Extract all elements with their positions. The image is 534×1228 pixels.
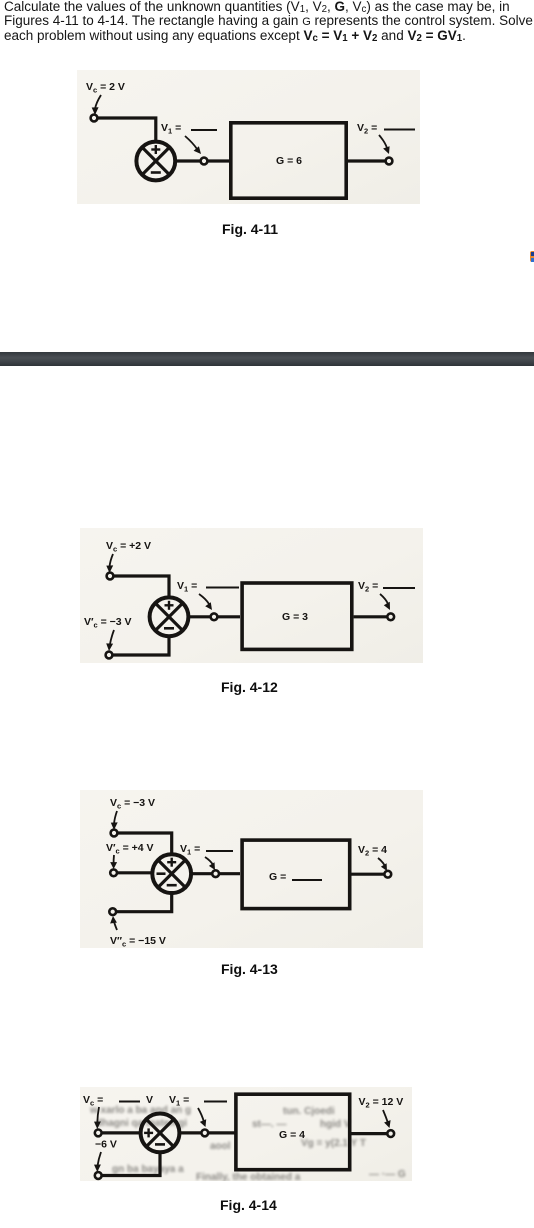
node V2 label [358,580,378,594]
value label G = 4 [279,1129,305,1141]
arrow to V2 terminal [383,1110,388,1123]
svg-text:V′c = −3 V: V′c = −3 V [84,616,132,630]
svg-text:V1 =: V1 = [177,580,197,594]
wire -6V to summer [102,1154,160,1176]
node V1 label [177,580,197,594]
blank for V1 value [204,1101,227,1103]
terminal V2 [387,613,394,620]
page edge icon artifact [530,251,534,262]
wire Vc to summer [114,576,170,598]
arrow to V'c terminal [110,630,114,645]
summing junction S3 [152,854,191,893]
value label G = blank [269,871,286,883]
wire V''c to summer [116,891,172,912]
blank for V1 value [206,850,233,852]
svg-text:V1 =: V1 = [180,843,200,857]
terminal Vc [107,573,114,580]
arrow to Vc terminal [97,1107,99,1123]
node V2 label [359,1096,404,1110]
node Vc label [83,1094,103,1108]
svg-text:V′c = +4 V: V′c = +4 V [106,842,154,856]
node Vc label [106,540,151,554]
terminal V1 [211,613,218,620]
svg-text:G =: G = [269,871,286,883]
arrow to V1 terminal [198,1108,204,1122]
wire box to node V2 [352,873,385,876]
terminal Vc [95,1130,102,1137]
svg-text:Vc = 2 V: Vc = 2 V [86,81,125,95]
svg-text:Vc = +2 V: Vc = +2 V [106,540,151,554]
svg-text:Finally, the obtained a: Finally, the obtained a [196,1172,301,1181]
node V'c label [106,842,154,856]
gain block G=6 [231,123,346,198]
arrow to Vc terminal [95,95,101,109]
blank for V1 value [191,129,217,131]
caption Fig. 4-12 [221,679,278,695]
caption Fig. 4-13 [221,961,278,977]
node V2 label [357,122,377,136]
terminal V'c [106,652,113,659]
node Vc label [86,81,125,95]
gain block G=4 [236,1094,350,1170]
terminal V2 [386,158,393,165]
svg-text:V1 =: V1 = [161,122,181,136]
svg-text:V2 = 12 V: V2 = 12 V [359,1096,404,1110]
wire node V1 to box [218,615,241,618]
unit V after blank [146,1094,153,1106]
caption Fig. 4-11 [222,221,278,237]
wire Vc to summer [118,833,172,856]
svg-text:G = 3: G = 3 [282,611,308,623]
wire summer to node V1 [191,872,212,875]
blank for V1 value [206,587,239,589]
figure 4-14 scan [80,1087,412,1181]
caption Fig. 4-14 [220,1197,277,1213]
node V1 label [180,843,200,857]
svg-text:hgid V: hgid V [320,1119,351,1130]
wire summer to node V1 [179,1131,201,1134]
svg-text:Vc =: Vc = [83,1094,103,1108]
svg-text:aool: aool [210,1141,231,1152]
gain block G=? [242,840,350,909]
terminal Vc [91,115,98,122]
node -6V label [95,1139,117,1151]
arrow to V2 terminal [380,594,388,604]
ghost bleed-through text [89,1105,406,1183]
node V''c label [110,935,166,949]
arrow to V2 terminal [378,858,385,866]
blank for G value [292,879,322,881]
wire summer to node V1 [188,615,210,618]
arrow to Vc terminal [114,811,117,824]
svg-text:V″c = −15 V: V″c = −15 V [110,935,166,948]
svg-text:V2 =: V2 = [358,580,378,594]
terminal Vc [111,830,118,837]
arrow to V'c terminal [113,855,115,864]
wire V'c to summer [113,635,170,655]
node V'c label [84,616,132,630]
svg-text:V2 =: V2 = [357,122,377,136]
svg-text:V1 =: V1 = [169,1094,189,1108]
summing junction S1 [136,142,175,181]
wire node V1 to box [208,1131,235,1134]
terminal -6V [95,1172,102,1179]
node V2 label [358,844,387,858]
node Vc label [110,797,155,811]
divider bar [0,352,534,366]
arrow to lower terminal [98,1152,102,1166]
terminal V1 [201,158,208,165]
figure 4-11 scan [77,70,420,204]
arrow to V1 terminal [199,594,209,604]
svg-text:Vg = y(2.1 Y T: Vg = y(2.1 Y T [301,1138,366,1149]
value label G = 6 [276,155,302,167]
value label G = 3 [282,611,308,623]
terminal V2 [387,1130,394,1137]
wire node V1 to box [208,159,230,162]
svg-text:tun. Cjoedi: tun. Cjoedi [283,1106,335,1117]
node V1 label [169,1094,189,1108]
figure 4-13 scan [80,790,423,948]
svg-text:Vc = −3 V: Vc = −3 V [110,797,155,811]
blank for Vc value [119,1101,140,1103]
arrow to Vc terminal [110,554,114,567]
blank for V2 value [383,587,415,589]
figure 4-12 scan [80,528,423,663]
wire Vc to summer [98,118,156,142]
svg-text:G = 6: G = 6 [276,155,302,167]
svg-text:V: V [146,1094,153,1106]
terminal V2 [384,871,391,878]
svg-text:gn ba bayaya a: gn ba bayaya a [112,1164,184,1175]
svg-text:V2 = 4: V2 = 4 [358,844,387,858]
arrow to V2 terminal [379,135,387,148]
arrow to V''c terminal [114,920,117,930]
gain block G=3 [242,583,352,649]
svg-text:G = 4: G = 4 [279,1129,305,1141]
summing junction S2 [150,597,189,636]
wire box to node V2 [352,1132,388,1135]
wire box to node V2 [348,159,385,162]
wire V'c to summer [117,871,153,874]
terminal V'c [110,869,117,876]
paragraph text [4,0,534,43]
terminal V1 [212,870,219,877]
summing junction S4 [141,1114,180,1153]
svg-text:— ·— G: — ·— G [369,1169,406,1180]
wire box to node V2 [354,615,387,618]
arrow to V1 terminal [205,857,213,865]
wire node V1 to box [219,872,240,875]
terminal V1 [201,1130,208,1137]
node V1 label [161,122,181,136]
svg-text:−6 V: −6 V [95,1139,117,1151]
arrow to V1 terminal [185,136,197,149]
terminal V''c [109,908,116,915]
wire summer to node V1 [175,159,200,162]
wire Vc to summer [102,1131,142,1134]
blank for V2 value [384,129,415,131]
